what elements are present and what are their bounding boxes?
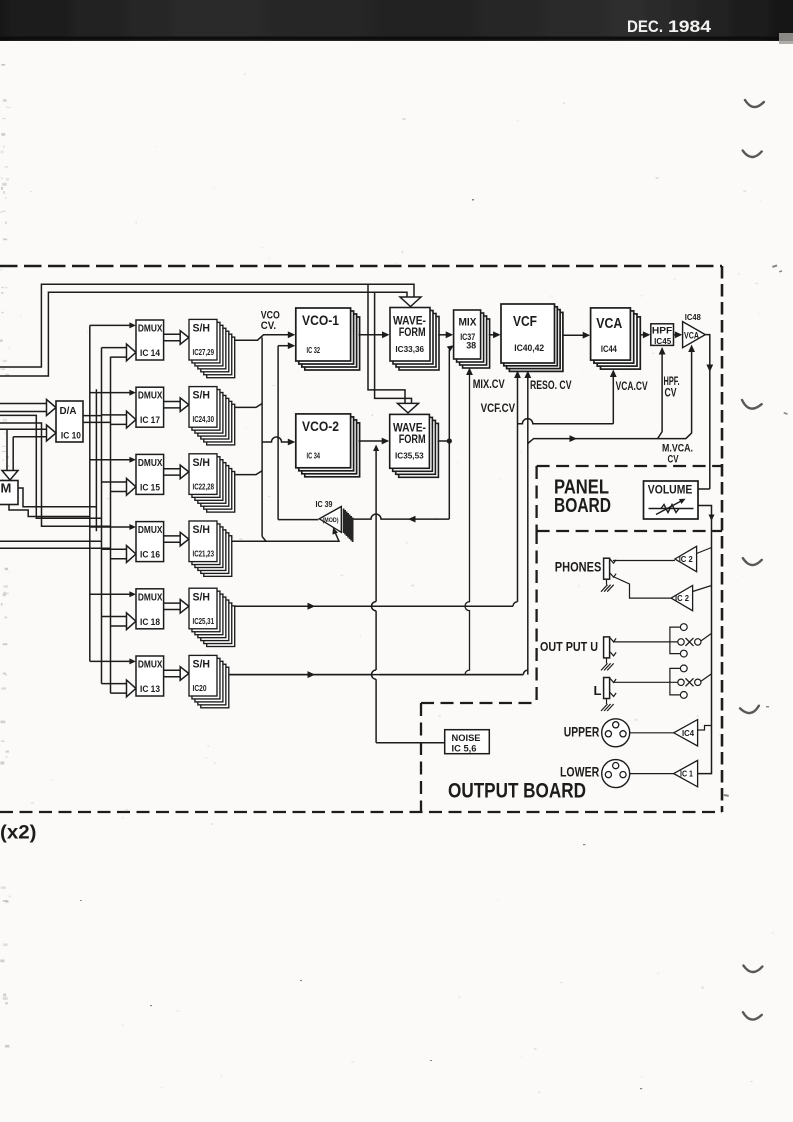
svg-text:S/H: S/H bbox=[193, 390, 211, 402]
svg-text:VCO-2: VCO-2 bbox=[302, 419, 339, 434]
svg-text:IC 14: IC 14 bbox=[140, 348, 161, 359]
svg-text:IC25,31: IC25,31 bbox=[193, 617, 215, 626]
svg-text:RESO. CV: RESO. CV bbox=[530, 378, 572, 392]
svg-text:DMUX: DMUX bbox=[138, 591, 163, 603]
svg-text:DMUX: DMUX bbox=[138, 524, 163, 536]
svg-text:IC 39: IC 39 bbox=[316, 500, 333, 509]
svg-text:OUT PUT U: OUT PUT U bbox=[540, 639, 598, 654]
svg-text:CV: CV bbox=[668, 453, 679, 465]
svg-text:NOISE: NOISE bbox=[452, 733, 481, 744]
svg-text:IC22,28: IC22,28 bbox=[193, 482, 215, 491]
svg-text:(MOD): (MOD) bbox=[323, 517, 339, 524]
svg-text:VCF: VCF bbox=[513, 314, 537, 330]
svg-text:CV: CV bbox=[665, 388, 677, 400]
svg-text:LOWER: LOWER bbox=[560, 764, 599, 780]
svg-text:IC20: IC20 bbox=[193, 684, 207, 693]
svg-text:IC 2: IC 2 bbox=[679, 555, 694, 564]
svg-text:IC33,36: IC33,36 bbox=[395, 344, 424, 354]
svg-text:S/H: S/H bbox=[193, 591, 211, 603]
svg-text:DMUX: DMUX bbox=[138, 457, 163, 469]
svg-text:CV.: CV. bbox=[261, 320, 276, 332]
svg-text:PHONES: PHONES bbox=[555, 558, 602, 574]
svg-text:IC48: IC48 bbox=[685, 313, 702, 322]
svg-text:IC 18: IC 18 bbox=[140, 617, 160, 628]
svg-text:VCA: VCA bbox=[684, 331, 699, 341]
svg-text:IC27,29: IC27,29 bbox=[193, 348, 215, 357]
svg-text:VCO-1: VCO-1 bbox=[302, 313, 339, 328]
svg-text:OUTPUT BOARD: OUTPUT BOARD bbox=[448, 780, 586, 803]
svg-text:IC44: IC44 bbox=[601, 344, 617, 354]
svg-text:IC35,53: IC35,53 bbox=[395, 451, 424, 461]
svg-text:IC 16: IC 16 bbox=[140, 550, 160, 561]
svg-text:D/A: D/A bbox=[60, 405, 77, 417]
svg-text:S/H: S/H bbox=[193, 524, 211, 536]
svg-text:HPF: HPF bbox=[652, 326, 673, 337]
svg-text:IC24,30: IC24,30 bbox=[193, 415, 215, 424]
svg-text:L: L bbox=[594, 683, 602, 698]
svg-text:IC 13: IC 13 bbox=[140, 684, 160, 695]
svg-text:IC 15: IC 15 bbox=[140, 482, 161, 493]
svg-text:IC 1: IC 1 bbox=[680, 770, 693, 779]
svg-text:IC 10: IC 10 bbox=[61, 431, 81, 441]
svg-text:VCF.CV: VCF.CV bbox=[481, 401, 515, 415]
svg-text:DMUX: DMUX bbox=[138, 323, 163, 335]
svg-text:VCA.CV: VCA.CV bbox=[616, 379, 648, 393]
svg-text:IC4: IC4 bbox=[682, 729, 695, 738]
svg-text:IC21,23: IC21,23 bbox=[193, 550, 215, 559]
svg-text:MIX.CV: MIX.CV bbox=[473, 377, 505, 391]
svg-text:MIX: MIX bbox=[459, 317, 478, 329]
svg-text:DEC.: DEC. bbox=[627, 18, 663, 36]
svg-text:VOLUME: VOLUME bbox=[648, 483, 693, 497]
svg-text:DMUX: DMUX bbox=[138, 659, 163, 671]
svg-text:DMUX: DMUX bbox=[138, 390, 163, 402]
svg-text:HPF.: HPF. bbox=[664, 376, 680, 388]
svg-text:IC45: IC45 bbox=[654, 337, 672, 346]
svg-text:UPPER: UPPER bbox=[564, 724, 600, 740]
svg-text:S/H: S/H bbox=[193, 323, 211, 335]
svg-text:M: M bbox=[1, 481, 12, 496]
svg-text:IC 5,6: IC 5,6 bbox=[452, 744, 477, 754]
svg-text:IC 34: IC 34 bbox=[307, 451, 321, 461]
svg-text:S/H: S/H bbox=[193, 659, 211, 671]
svg-text:IC 32: IC 32 bbox=[307, 345, 321, 355]
svg-text:38: 38 bbox=[466, 340, 476, 350]
svg-text:FORM: FORM bbox=[399, 325, 426, 339]
svg-text:1984: 1984 bbox=[668, 18, 712, 36]
svg-text:S/H: S/H bbox=[193, 457, 211, 469]
svg-text:VCA: VCA bbox=[596, 316, 622, 332]
svg-text:IC 17: IC 17 bbox=[140, 415, 160, 426]
svg-text:(x2): (x2) bbox=[0, 823, 37, 844]
svg-text:IC40,42: IC40,42 bbox=[514, 343, 544, 354]
svg-text:IC 2: IC 2 bbox=[675, 594, 690, 603]
svg-text:FORM: FORM bbox=[399, 432, 426, 446]
svg-text:BOARD: BOARD bbox=[554, 495, 611, 517]
